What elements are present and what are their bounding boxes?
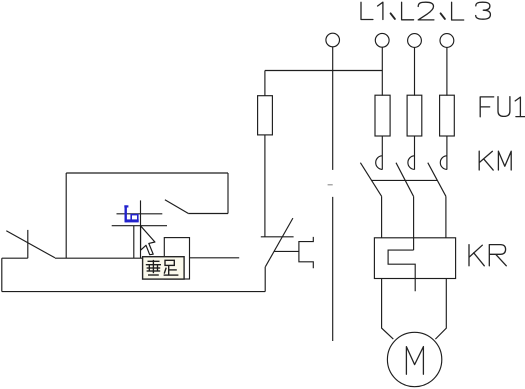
bottom wire segment 1 xyxy=(2,257,28,259)
bottom wire segment 2 xyxy=(55,257,165,259)
coil drop wire a xyxy=(133,226,135,259)
bottom wire segment 3 xyxy=(190,257,240,259)
control loop left wire xyxy=(65,173,67,258)
wire: tap down to control fuse xyxy=(264,71,266,96)
KM aux blade xyxy=(165,200,188,214)
stop contact blade xyxy=(6,231,55,258)
wire: L2 drop to fuse xyxy=(414,48,416,96)
start button upper wire xyxy=(264,135,266,237)
KM contact arc pole1 xyxy=(376,156,383,170)
osnap marker perpendicular (blue) xyxy=(124,205,138,222)
terminal circle L2 xyxy=(408,34,422,48)
wire: KM pole2 to KR heater xyxy=(413,196,415,250)
KM contact arc pole3 xyxy=(440,156,447,170)
label KM xyxy=(479,151,511,170)
wire: fuse3 to KM contact xyxy=(446,136,448,170)
wire: L1 drop to fuse xyxy=(381,47,383,95)
terminal circle control tap xyxy=(326,33,340,47)
start button fixed tick xyxy=(261,236,294,238)
tooltip glyph 垂 xyxy=(146,260,161,275)
terminal circle L1 xyxy=(375,33,389,47)
KM linkage line xyxy=(371,179,437,181)
start button cap bracket xyxy=(299,237,313,268)
wire: control drop lower segment xyxy=(332,197,334,341)
KM aux contact wire xyxy=(188,213,228,215)
start button blade xyxy=(265,218,293,267)
wire: control drop upper segment xyxy=(332,47,334,170)
KR box xyxy=(374,238,455,279)
wire: tap to control fuse xyxy=(265,70,382,72)
label L1、L2、L3 xyxy=(361,2,490,20)
motor letter M xyxy=(406,347,423,375)
KM blade pole3 xyxy=(428,163,446,197)
left edge drop xyxy=(1,258,3,291)
faint linkage dash xyxy=(328,184,333,186)
KM blade pole1 xyxy=(360,163,381,197)
wire: KM pole3 to KR xyxy=(445,196,447,238)
KM coil box xyxy=(164,238,189,279)
KM blade pole2 xyxy=(396,163,414,197)
KR heater element xyxy=(388,250,415,291)
stop contact tick xyxy=(27,230,29,258)
control loop right wire xyxy=(227,173,229,214)
rubber-band line being drawn xyxy=(140,200,142,258)
wire: fuse1 to KM contact xyxy=(381,136,383,170)
fuse FU1 pole3 xyxy=(440,95,455,136)
crossing tick lower xyxy=(112,225,167,227)
terminal circle L3 xyxy=(440,34,454,48)
fuse FU1 pole2 xyxy=(407,95,422,136)
bottom bus xyxy=(2,291,265,293)
wire: fuse2 to KM contact xyxy=(414,136,416,170)
tooltip box xyxy=(143,257,185,279)
start button push rod xyxy=(274,250,299,252)
wire: L3 drop to fuse xyxy=(446,48,448,96)
wire: KR to motor left xyxy=(382,279,394,340)
wire: KM pole1 to KR xyxy=(381,196,383,238)
fuse FU1 pole1 xyxy=(375,95,390,136)
wire: KR to motor right xyxy=(435,279,446,340)
tooltip glyph 足 xyxy=(164,260,179,275)
start button lower wire xyxy=(264,267,266,292)
mouse cursor xyxy=(141,226,155,255)
label FU1 xyxy=(480,97,525,117)
control loop top wire xyxy=(66,172,228,174)
KM aux fixed tick xyxy=(117,213,163,215)
motor circle xyxy=(387,332,441,386)
KM contact arc pole2 xyxy=(408,156,415,170)
fuse FU2 control xyxy=(258,96,273,135)
label KR xyxy=(469,245,506,266)
